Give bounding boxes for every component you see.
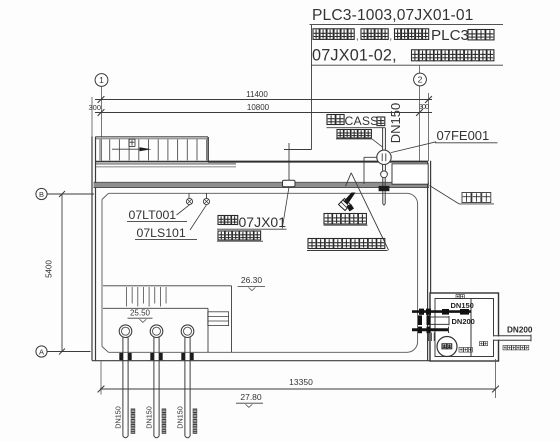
- axis 1 bubble: [95, 74, 108, 87]
- label junction box 07JX01: [217, 214, 287, 230]
- svg-text:25.50: 25.50: [130, 309, 151, 318]
- tank top wall band: [94, 182, 430, 187]
- valve chamber outer wall: [430, 293, 499, 361]
- pump P1 circle: [119, 325, 132, 338]
- wire conduit leader from control-cabinet text: [311, 25, 313, 150]
- svg-text:DN200: DN200: [452, 317, 475, 326]
- label 07LT001: [127, 208, 187, 222]
- label outlet destination: [503, 346, 529, 350]
- interior platform top line: [103, 285, 232, 287]
- dimension 300 left text: [89, 103, 102, 112]
- svg-text:07FE001: 07FE001: [437, 128, 490, 143]
- label 07FE001: [435, 128, 498, 143]
- tank inner corner chamfer top-left: [102, 193, 109, 199]
- label sump: [480, 342, 488, 346]
- svg-text:DN150: DN150: [145, 406, 154, 428]
- svg-text:,: ,: [356, 32, 359, 42]
- pump P3 circle: [181, 325, 194, 338]
- level sensor 07LT001 symbol: [186, 198, 192, 204]
- riser pipe below meter: [383, 164, 386, 170]
- label PLC3-1003,07JX01-01 annotation line 1: [312, 7, 474, 24]
- svg-text:DN150: DN150: [176, 406, 185, 428]
- label submersible mixer: [324, 214, 368, 226]
- chamber drop pipes: [429, 333, 435, 342]
- svg-text:DN150: DN150: [451, 301, 474, 310]
- label outlet DN200: [507, 326, 533, 335]
- tank left wall: [92, 137, 96, 361]
- axis A bubble: [36, 346, 47, 357]
- extension line wall left: [91, 97, 93, 137]
- svg-text:07LS101: 07LS101: [137, 226, 186, 240]
- axis A line: [47, 349, 91, 355]
- svg-text:11400: 11400: [246, 90, 268, 99]
- tank bottom wall outer line: [92, 360, 431, 362]
- outlet pipe gap: [493, 336, 500, 339]
- label pipe 3 destination: [193, 409, 198, 434]
- dimension 11400 line: [95, 96, 432, 103]
- label DN150 riser: [388, 103, 403, 143]
- svg-text:2: 2: [418, 75, 423, 85]
- riser pipe upper: [383, 128, 386, 150]
- svg-text:27.80: 27.80: [240, 392, 262, 402]
- axis 2 bubble: [414, 73, 427, 86]
- interior ladder: [208, 312, 229, 326]
- svg-text:DN150: DN150: [388, 103, 403, 143]
- svg-text:DN200: DN200: [507, 326, 533, 335]
- svg-text:PLC3-1003,07JX01-01: PLC3-1003,07JX01-01: [312, 7, 474, 24]
- dimension 5400 line: [61, 194, 63, 352]
- label DN200 chamber: [452, 317, 475, 326]
- label DN150 pipe 1: [114, 406, 123, 428]
- pump pit top line: [103, 307, 208, 309]
- riser valve circle: [381, 171, 388, 178]
- flow meter 07FE001 symbol: [377, 150, 391, 164]
- svg-text:1: 1: [99, 75, 104, 85]
- pump P3 wall sleeve flanges: [181, 353, 193, 360]
- tank top inner wall line: [109, 192, 408, 194]
- svg-text:B: B: [39, 190, 44, 199]
- leader junction box: [282, 187, 289, 229]
- label fixed-on-railing: [217, 231, 263, 241]
- tank left inner wall line: [101, 200, 103, 347]
- grille comb teeth: [127, 287, 167, 307]
- walkway top line: [96, 161, 428, 163]
- leader 07LT001: [177, 205, 190, 215]
- svg-text:5400: 5400: [45, 260, 54, 278]
- riser pipe lower: [383, 178, 385, 205]
- pump P2 circle: [150, 325, 163, 338]
- label DN150 pipe 3: [176, 406, 185, 428]
- level sensor 07LS101 symbol: [203, 198, 209, 204]
- label annotation line 2 chinese run + PLC3: [313, 27, 494, 44]
- svg-text:07LT001: 07LT001: [129, 208, 177, 222]
- stair treads: [100, 139, 207, 160]
- svg-text:300: 300: [419, 104, 429, 111]
- dimension 10800 text: [247, 103, 270, 112]
- svg-text:07JX01-02,: 07JX01-02,: [312, 47, 397, 65]
- label install-with-ladder-door: [307, 239, 388, 251]
- svg-text:300: 300: [89, 103, 102, 112]
- leader walkway plate: [430, 186, 460, 204]
- pipe DN150 chamber: [412, 309, 471, 315]
- pipe DN200 chamber: [418, 315, 449, 325]
- flow meter side stub: [364, 157, 377, 184]
- leader 07LS101: [190, 205, 207, 230]
- axis B line: [47, 191, 94, 197]
- svg-text:,: ,: [390, 32, 393, 42]
- dimension 13350 text: [289, 377, 313, 387]
- svg-text:CASS: CASS: [345, 114, 379, 128]
- extension line bottom right: [495, 359, 497, 398]
- axis 1 line: [101, 87, 103, 162]
- svg-text:DN150: DN150: [114, 406, 123, 428]
- svg-text:07JX01: 07JX01: [239, 214, 287, 230]
- walkway slab plate: [392, 164, 428, 184]
- interior platform right line: [231, 286, 233, 353]
- svg-text:A: A: [39, 348, 44, 357]
- label pipe 2 destination: [162, 409, 167, 434]
- dimension 11400 text: [246, 90, 268, 99]
- label annotation line 3 07JX01-02: [312, 47, 494, 65]
- dimension 10800 line: [95, 109, 432, 116]
- stair step-down edge: [207, 137, 209, 162]
- leader 07FE001: [391, 142, 436, 153]
- stair direction arrow: [112, 139, 152, 151]
- svg-text:13350: 13350: [289, 377, 313, 387]
- axis B bubble: [36, 188, 47, 199]
- leader underline under annotation line 3: [311, 64, 503, 66]
- outlet pipe DN200: [494, 335, 532, 342]
- label surplus sludge pipe: [336, 130, 372, 139]
- leader underline under annotation line 1: [310, 24, 504, 26]
- label DN150 pipe 2: [145, 406, 154, 428]
- pump pit right line: [207, 308, 209, 352]
- dimension 5400 text: [45, 260, 54, 278]
- pump P2 wall sleeve flanges: [150, 353, 162, 360]
- label walkway plate: [459, 193, 494, 204]
- tank right wall: [428, 161, 431, 361]
- extension line bottom left: [100, 361, 102, 394]
- pump P1 wall sleeve flanges: [119, 353, 131, 360]
- label DN150 chamber: [451, 295, 474, 311]
- tank bottom inner wall line: [109, 351, 408, 353]
- axis 2 bubble line: [419, 65, 421, 161]
- pump P3 riser pipe: [185, 337, 190, 438]
- svg-text:PLC3: PLC3: [431, 27, 469, 44]
- riser wall sleeve flange: [379, 186, 390, 191]
- elevation 27.80: [236, 392, 263, 407]
- manhole: [437, 337, 457, 357]
- svg-text:10800: 10800: [247, 103, 270, 112]
- elevation 26.30: [238, 275, 266, 291]
- tank inner corner chamfer bottom-left: [102, 347, 109, 353]
- wire conduit drop to junction box: [284, 143, 312, 180]
- valve chamber inner wall: [435, 299, 494, 357]
- label pipe 1 destination: [131, 409, 136, 434]
- extension line wall right: [428, 93, 430, 161]
- valve chamber divider: [470, 299, 472, 357]
- submersible mixer icon: [339, 193, 356, 212]
- level sensor drop wires: [189, 193, 207, 198]
- tank right inner wall line: [407, 193, 418, 352]
- pump P2 riser pipe: [154, 337, 159, 438]
- svg-text:26.30: 26.30: [241, 275, 263, 285]
- label from-CASS-basin: [327, 114, 386, 128]
- pump P1 riser pipe: [123, 337, 128, 438]
- junction box 07JX01: [283, 180, 296, 187]
- stair top edge: [96, 137, 208, 139]
- mixer break triangle: [346, 173, 389, 250]
- leader surplus sludge pipe: [372, 139, 383, 147]
- label valve pit: [459, 348, 472, 353]
- pipe drain chamber: [412, 327, 449, 334]
- stair lower landing edge: [96, 164, 236, 167]
- elevation 25.50: [128, 309, 153, 323]
- dimension 13350 line: [98, 386, 499, 393]
- dimension 300 right text: [419, 104, 429, 111]
- label 07LS101: [135, 226, 197, 240]
